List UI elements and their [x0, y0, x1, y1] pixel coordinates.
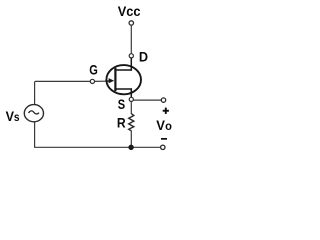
wire resistor to junction	[130, 131, 132, 148]
wire left rail upper	[34, 81, 36, 104]
svg-text:R: R	[117, 114, 126, 130]
JFET Q1	[105, 58, 141, 97]
resistor R	[129, 114, 134, 131]
svg-text:D: D	[139, 48, 148, 64]
wire G node to gate	[95, 80, 106, 82]
terminal output minus	[161, 145, 165, 149]
svg-text:s: s	[14, 112, 20, 124]
node G terminal	[90, 79, 94, 83]
wire left rail lower	[34, 122, 36, 147]
junction dot	[128, 145, 133, 150]
svg-text:S: S	[118, 96, 125, 112]
Vcc supply terminal	[129, 21, 133, 25]
label minus sign	[161, 138, 167, 140]
svg-text:Vcc: Vcc	[118, 3, 141, 19]
terminal output plus	[161, 98, 165, 102]
label plus sign	[163, 108, 169, 114]
svg-text:G: G	[89, 62, 98, 78]
wire Vcc terminal to drain node	[130, 25, 132, 53]
wire gate horizontal from source loop	[35, 80, 90, 82]
wire S node to plus terminal	[134, 99, 162, 101]
node D terminal	[129, 54, 133, 58]
wire junction to minus terminal	[131, 146, 160, 148]
node S terminal	[129, 97, 133, 101]
wire bottom left to junction	[34, 146, 131, 148]
wire S node to resistor	[130, 102, 132, 114]
svg-text:o: o	[165, 121, 172, 133]
voltage source Vs	[24, 105, 43, 122]
